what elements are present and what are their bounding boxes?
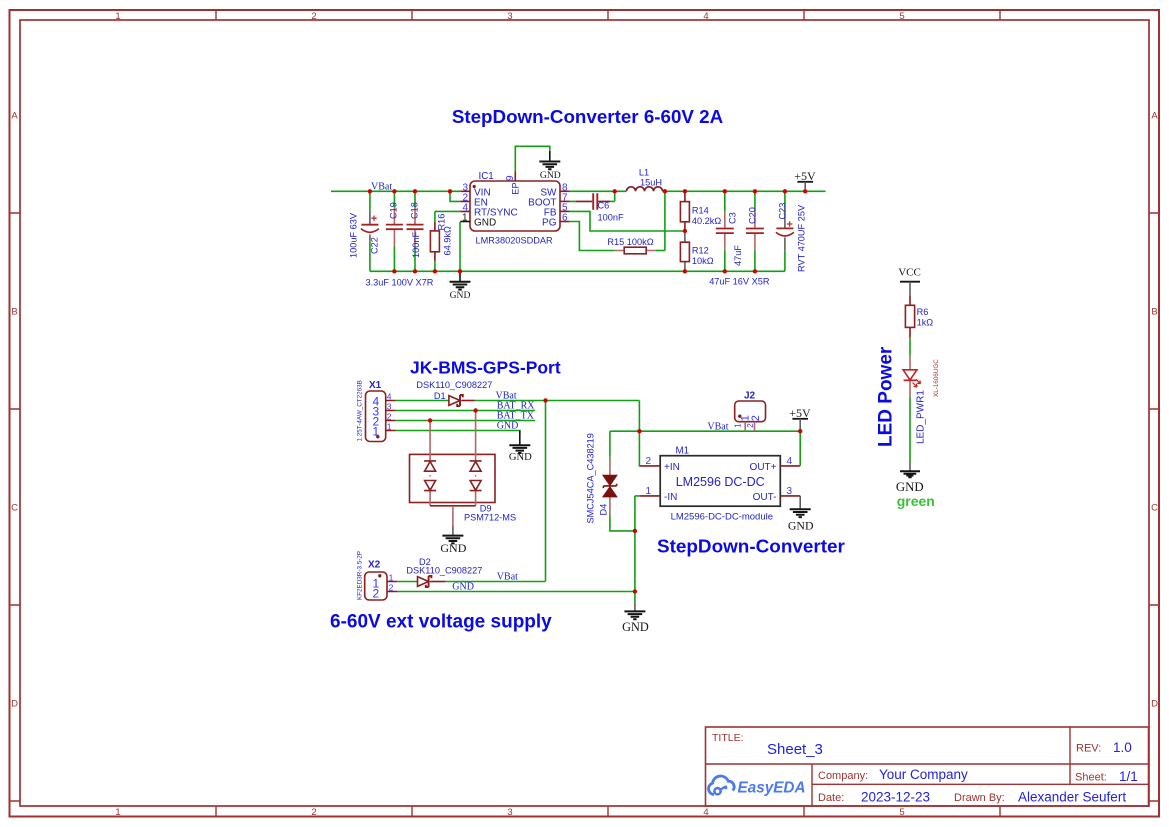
junction C18 bottom: [413, 269, 417, 273]
svg-text:1.25T-4AW_CT2263B: 1.25T-4AW_CT2263B: [356, 380, 363, 441]
svg-text:L1: L1: [639, 168, 649, 178]
svg-text:3: 3: [507, 11, 512, 22]
title block: [706, 727, 1149, 806]
svg-text:2: 2: [311, 11, 316, 22]
svg-text:M1: M1: [676, 446, 690, 457]
svg-text:OUT+: OUT+: [750, 462, 777, 473]
EasyEDA logo: [709, 776, 806, 796]
ground GND (LED, x=910): [896, 462, 924, 494]
svg-text:2023-12-23: 2023-12-23: [861, 790, 930, 805]
svg-text:OUT-: OUT-: [753, 492, 777, 503]
junction C22 top: [368, 189, 372, 193]
svg-text:Date:: Date:: [818, 792, 844, 804]
header J2: [734, 391, 766, 432]
ground GND (X1, x=520.4): [509, 431, 532, 463]
svg-text:J2: J2: [744, 391, 756, 402]
svg-text:B: B: [1151, 307, 1157, 318]
diode D1 DSK110: [396, 380, 640, 406]
junction GND node: [458, 269, 462, 273]
svg-text:KF2ED3R-3.5-2P: KF2ED3R-3.5-2P: [356, 551, 363, 600]
svg-text:DSK110_C908227: DSK110_C908227: [406, 566, 482, 576]
ground GND (D9, x=452.9): [440, 526, 466, 555]
wire VBat rail right of IC (SW node to +5V): [570, 190, 826, 192]
junction VBat riser: [543, 398, 547, 402]
svg-text:2: 2: [311, 807, 316, 818]
svg-text:Your Company: Your Company: [879, 767, 968, 782]
junction L1 out: [663, 189, 667, 193]
svg-text:GND: GND: [622, 620, 649, 634]
wire EN from rail: [450, 191, 460, 201]
svg-text:3: 3: [507, 807, 512, 818]
junction C23 top: [783, 189, 787, 193]
svg-text:1: 1: [645, 486, 651, 497]
svg-text:4: 4: [703, 807, 708, 818]
svg-text:green: green: [897, 493, 935, 509]
svg-text:GND: GND: [452, 581, 474, 592]
svg-text:C3: C3: [728, 212, 738, 224]
junction C18 top: [413, 189, 417, 193]
wire FB path: [560, 211, 685, 231]
ground GND (below rail, x=460): [450, 271, 471, 301]
junction C19 bottom: [392, 269, 396, 273]
svg-text:2: 2: [387, 411, 392, 421]
TVS array D9 PSM712-MS: [410, 411, 517, 526]
diode D2 DSK110: [397, 557, 546, 587]
svg-text:JK-BMS-GPS-Port: JK-BMS-GPS-Port: [410, 358, 561, 378]
svg-text:2: 2: [389, 582, 394, 592]
svg-text:5: 5: [899, 11, 904, 22]
svg-text:C: C: [11, 503, 18, 514]
svg-text:C18: C18: [409, 202, 419, 219]
junction FB divider node: [683, 229, 687, 233]
svg-text:Sheet:: Sheet:: [1075, 772, 1107, 784]
junction VBat M1 input: [637, 429, 641, 433]
svg-text:R14: R14: [692, 205, 709, 215]
svg-text:10kΩ: 10kΩ: [692, 256, 714, 266]
svg-text:Sheet_3: Sheet_3: [767, 741, 823, 758]
svg-text:LM2596-DC-DC-module: LM2596-DC-DC-module: [671, 512, 773, 523]
module M1 LM2596 DC-DC: [640, 446, 800, 523]
ground GND (above IC, x=549.8): [539, 151, 560, 181]
svg-text:-IN: -IN: [664, 492, 677, 503]
svg-text:VCC: VCC: [898, 266, 921, 278]
svg-text:LED_PWR1: LED_PWR1: [915, 390, 926, 444]
wire VOUT to R15: [664, 191, 666, 250]
junction C19 top: [392, 189, 396, 193]
junction SW-C6 node: [613, 189, 617, 193]
svg-text:X2: X2: [368, 560, 381, 571]
wire +IN drop: [638, 431, 641, 466]
wire VBat to M1 input node: [610, 401, 800, 432]
svg-text:2: 2: [645, 456, 651, 467]
svg-text:1/1: 1/1: [1119, 769, 1138, 784]
svg-text:1: 1: [115, 807, 120, 818]
svg-text:C: C: [1151, 503, 1158, 514]
svg-text:40.2kΩ: 40.2kΩ: [692, 216, 721, 226]
junction C3 bottom: [723, 269, 727, 273]
svg-text:5: 5: [899, 807, 904, 818]
capacitor C6 (BOOT): [560, 191, 624, 222]
svg-text:3: 3: [387, 401, 392, 411]
svg-text:3: 3: [787, 486, 793, 497]
wire VBat top rail: [331, 190, 460, 192]
svg-text:D: D: [1151, 699, 1158, 710]
svg-text:VBat: VBat: [497, 571, 518, 582]
junction D4 bottom: [633, 529, 637, 533]
svg-text:100nF: 100nF: [598, 213, 624, 223]
svg-text:EP: EP: [511, 182, 521, 194]
svg-text:100nF: 100nF: [411, 232, 421, 258]
wire PG path: [560, 222, 615, 251]
svg-text:+IN: +IN: [664, 462, 680, 473]
svg-text:1: 1: [734, 423, 743, 428]
svg-text:GND: GND: [788, 519, 814, 533]
junction EN node: [448, 189, 452, 193]
svg-text:1kΩ: 1kΩ: [917, 317, 934, 327]
junction BAT_RX / D9: [473, 408, 477, 412]
svg-text:1: 1: [389, 572, 394, 582]
svg-text:GND: GND: [450, 290, 471, 301]
svg-text:1.0: 1.0: [1113, 740, 1132, 755]
capacitor C3: [716, 191, 743, 271]
wire bottom GND rail: [370, 270, 785, 272]
svg-text:4: 4: [787, 456, 793, 467]
wire X2 VBat riser: [545, 401, 547, 582]
power VCC: [898, 266, 921, 296]
svg-text:StepDown-Converter: StepDown-Converter: [657, 537, 846, 558]
svg-text:Company:: Company:: [818, 770, 868, 782]
svg-text:15uH: 15uH: [640, 178, 662, 188]
svg-text:D: D: [11, 699, 18, 710]
svg-text:SMCJ54CA_C438219: SMCJ54CA_C438219: [586, 433, 596, 523]
resistor R12: [680, 231, 713, 271]
svg-text:R12: R12: [692, 245, 709, 255]
svg-text:R15 100kΩ: R15 100kΩ: [607, 237, 653, 247]
resistor R15: [607, 237, 665, 254]
svg-text:PG: PG: [542, 218, 557, 229]
capacitor C23: [776, 191, 806, 272]
wire LED to GND: [909, 397, 911, 462]
svg-text:REV:: REV:: [1076, 743, 1101, 755]
wire BAT_RX: [396, 410, 536, 412]
resistor R6: [905, 296, 933, 337]
svg-text:Drawn By:: Drawn By:: [954, 792, 1005, 804]
svg-text:1: 1: [115, 11, 120, 22]
svg-text:GND: GND: [497, 421, 519, 432]
junction R16 bottom: [433, 269, 437, 273]
svg-text:1: 1: [387, 421, 392, 431]
svg-text:C23: C23: [777, 203, 787, 220]
resistor R14: [680, 191, 721, 231]
junction BAT_TX / D9: [428, 418, 432, 422]
capacitor C20: [746, 191, 764, 271]
svg-text:47uF 16V X5R: 47uF 16V X5R: [709, 276, 770, 286]
svg-text:StepDown-Converter 6-60V 2A: StepDown-Converter 6-60V 2A: [452, 106, 724, 127]
svg-text:A: A: [11, 111, 18, 122]
inductor L1: [627, 168, 663, 192]
svg-text:GND: GND: [540, 170, 561, 181]
svg-text:Alexander Seufert: Alexander Seufert: [1018, 790, 1126, 805]
wire SW pin to rail: [560, 190, 570, 192]
svg-text:64.9kΩ: 64.9kΩ: [443, 226, 453, 255]
svg-text:2: 2: [373, 586, 380, 600]
junction C20 top: [753, 189, 757, 193]
TVS diode D4 SMCJ54CA: [586, 431, 635, 531]
svg-text:2: 2: [746, 423, 755, 428]
connector X1: [356, 380, 395, 442]
svg-text:C6: C6: [598, 201, 610, 211]
svg-text:LM2596 DC-DC: LM2596 DC-DC: [676, 475, 765, 489]
power +5V (top): [794, 169, 816, 191]
LED LED_PWR1: [903, 356, 940, 444]
svg-text:RVT 470UF 25V: RVT 470UF 25V: [796, 204, 806, 272]
svg-text:TITLE:: TITLE:: [712, 732, 744, 744]
svg-text:4: 4: [387, 391, 392, 401]
wire X2 GND: [397, 591, 635, 593]
svg-text:DSK110_C908227: DSK110_C908227: [416, 380, 492, 390]
svg-text:D4: D4: [599, 504, 609, 516]
wire X1 GND: [396, 431, 520, 435]
svg-text:XL-1606UGC: XL-1606UGC: [933, 359, 940, 397]
svg-text:X1: X1: [369, 380, 382, 391]
power +5V (mid): [789, 406, 811, 431]
svg-text:B: B: [11, 307, 17, 318]
svg-text:A: A: [1151, 111, 1158, 122]
svg-text:VBat: VBat: [707, 421, 728, 432]
svg-text:PSM712-MS: PSM712-MS: [464, 512, 516, 522]
svg-text:GND: GND: [440, 541, 466, 555]
wire -IN riser: [635, 496, 640, 592]
svg-text:R6: R6: [917, 307, 929, 317]
junction R12 bottom: [683, 269, 687, 273]
junction +5V OUT+: [798, 429, 802, 433]
svg-text:EasyEDA: EasyEDA: [738, 779, 806, 796]
wire R6 to LED: [909, 337, 911, 356]
svg-text:1: 1: [462, 213, 468, 224]
capacitor C22: [349, 191, 380, 271]
capacitor C19: [386, 191, 403, 271]
wire OUT+ riser: [799, 431, 801, 466]
svg-text:GND: GND: [474, 218, 496, 229]
svg-text:6-60V ext voltage supply: 6-60V ext voltage supply: [330, 611, 552, 632]
svg-text:D1: D1: [434, 391, 446, 401]
svg-text:C22: C22: [370, 237, 380, 254]
ground GND (OUT-, x=800.2): [788, 496, 814, 533]
svg-text:2: 2: [750, 415, 762, 421]
junction +5V node: [803, 189, 807, 193]
svg-text:LMR38020SDDAR: LMR38020SDDAR: [476, 236, 553, 246]
svg-text:100uF 63V: 100uF 63V: [349, 212, 359, 258]
svg-text:4: 4: [703, 11, 708, 22]
junction ext GND: [633, 589, 637, 593]
svg-text:LED Power: LED Power: [876, 346, 897, 447]
resistor R16: [430, 211, 460, 271]
wire BAT_TX: [396, 420, 536, 422]
svg-text:C20: C20: [748, 207, 758, 224]
junction C3 top: [723, 189, 727, 193]
svg-text:GND: GND: [896, 480, 924, 494]
op-amp/regulator IC1 LMR38020SDDAR: [460, 171, 568, 246]
svg-text:IC1: IC1: [479, 171, 494, 182]
svg-text:47uF: 47uF: [733, 245, 743, 266]
connector X2: [356, 551, 397, 600]
wire IC GND pin to rail: [459, 222, 461, 271]
svg-text:9: 9: [505, 175, 516, 181]
svg-text:GND: GND: [509, 452, 532, 463]
junction C20 bottom: [753, 269, 757, 273]
wire EP to ground: [515, 146, 550, 171]
ground GND (ext supply, x=634.9): [622, 592, 649, 634]
svg-text:3.3uF 100V X7R: 3.3uF 100V X7R: [366, 278, 434, 288]
capacitor C18: [407, 191, 424, 271]
svg-text:C19: C19: [389, 202, 399, 219]
junction R14 top: [683, 189, 687, 193]
